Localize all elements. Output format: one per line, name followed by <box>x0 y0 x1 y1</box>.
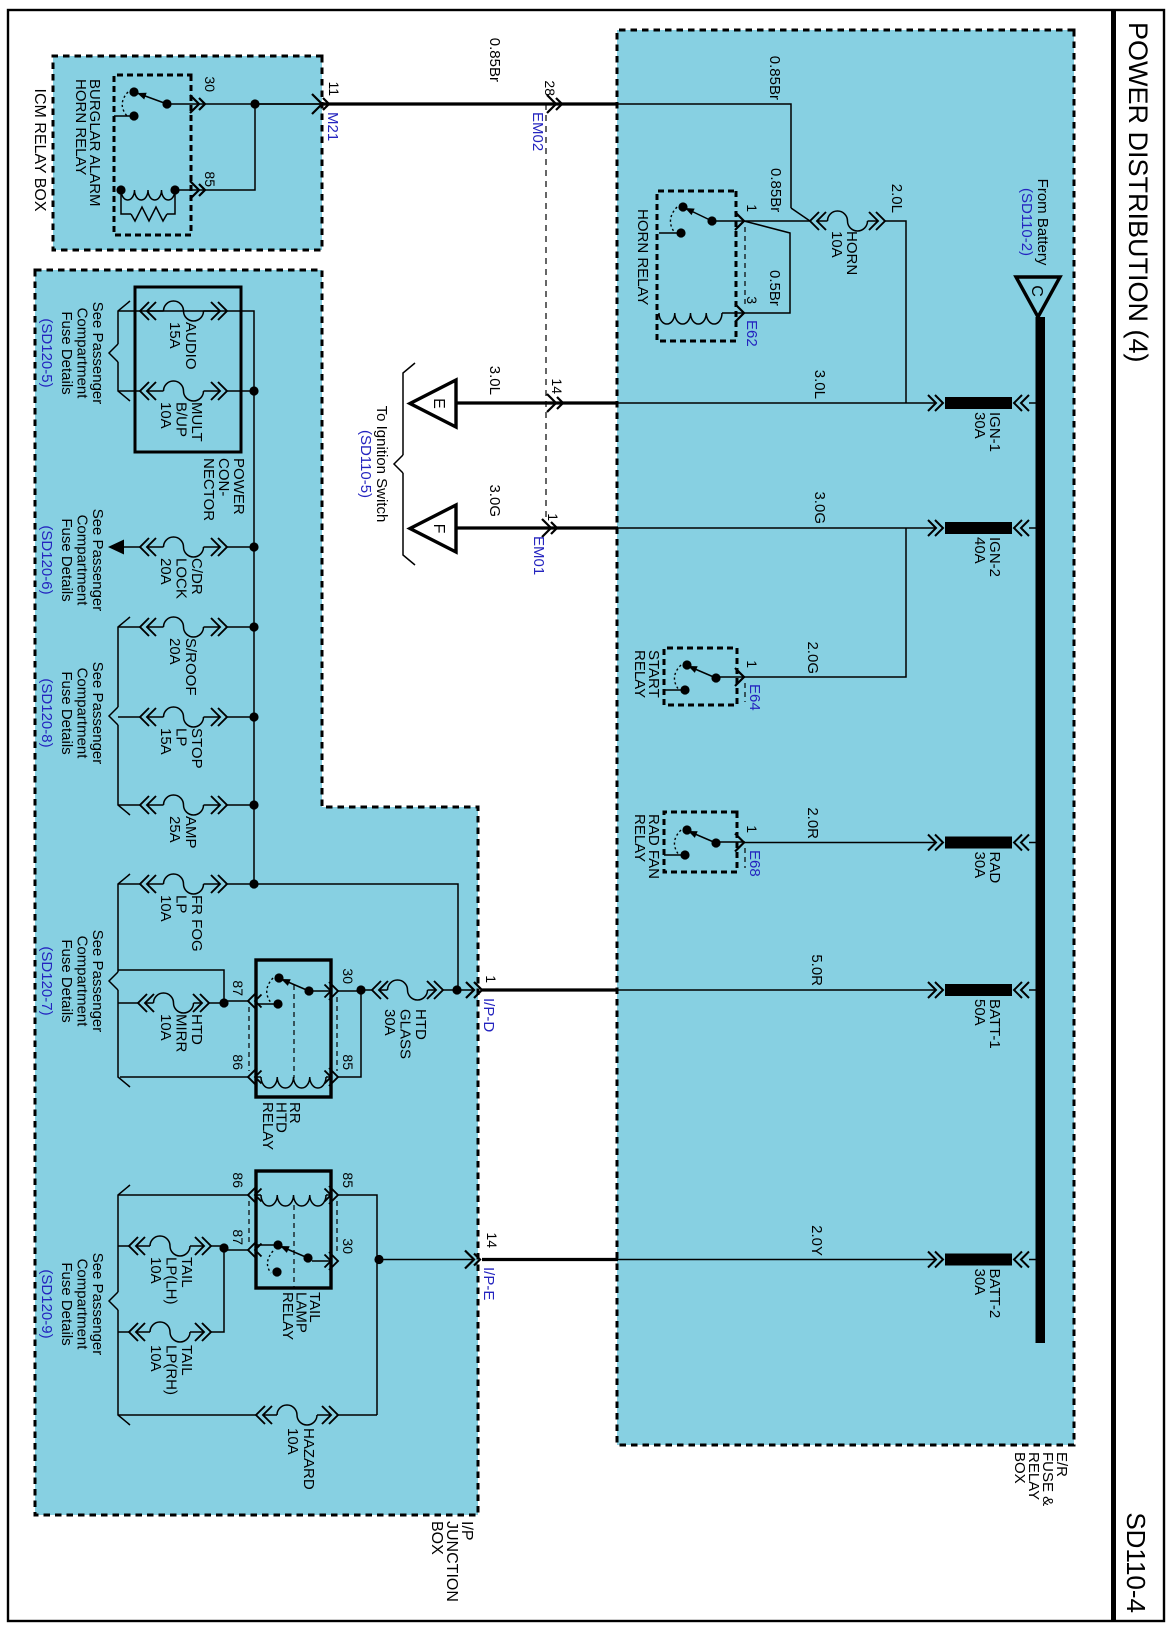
svg-text:MULT: MULT <box>188 402 205 442</box>
svg-text:AUDIO: AUDIO <box>182 322 199 370</box>
svg-text:HORN RELAY: HORN RELAY <box>72 79 89 175</box>
svg-text:10A: 10A <box>828 231 845 258</box>
svg-text:(SD120-5): (SD120-5) <box>38 318 55 387</box>
START RELAY box <box>664 648 737 705</box>
rad fan relay connector E68 pin 1 <box>735 834 744 852</box>
tail lamp relay pin links dashed <box>248 1201 250 1244</box>
svg-text:85: 85 <box>202 171 218 187</box>
svg-text:20A: 20A <box>157 558 174 585</box>
junction STOP fuse node <box>249 712 258 721</box>
wire pin 85 to hazard/batt2 node <box>338 1195 377 1415</box>
svg-text:BOX: BOX <box>1011 1452 1028 1484</box>
svg-text:30A: 30A <box>971 852 988 879</box>
wire burglar relay pins to M21 <box>199 103 251 105</box>
svg-text:3.0L: 3.0L <box>811 370 828 399</box>
svg-text:HORN RELAY: HORN RELAY <box>634 209 651 305</box>
svg-text:E64: E64 <box>746 684 763 711</box>
svg-text:30: 30 <box>340 968 356 984</box>
junction tail lamp feed node <box>374 1255 383 1264</box>
svg-text:30: 30 <box>202 76 218 92</box>
svg-text:EM02: EM02 <box>529 112 546 151</box>
svg-text:50A: 50A <box>971 999 988 1026</box>
svg-text:2.0G: 2.0G <box>804 641 821 674</box>
BURGLAR ALARM HORN RELAY box <box>114 75 191 235</box>
svg-text:Fuse Details: Fuse Details <box>58 311 75 394</box>
TAIL LAMP RELAY box <box>256 1171 331 1288</box>
wire horn relay pin 1 to horn fuse <box>744 220 810 222</box>
junction tail fuse node <box>219 1243 228 1252</box>
svg-text:HTD: HTD <box>188 1014 205 1045</box>
svg-text:30A: 30A <box>971 1269 988 1296</box>
start relay connector E64 pin 1 <box>735 668 744 686</box>
svg-text:E: E <box>430 398 447 409</box>
svg-text:(SD120-8): (SD120-8) <box>38 678 55 747</box>
tail lamp relay coil <box>326 1194 331 1196</box>
wire 0.5Br loop pin1 to pin3 <box>744 221 790 313</box>
wire 0.85Br from EM02 up into E/R box to horn node <box>255 104 791 208</box>
svg-text:15A: 15A <box>157 728 174 755</box>
svg-text:LOCK: LOCK <box>173 558 190 599</box>
connector I/P-E pin 14 <box>465 1251 474 1269</box>
battery bus bar <box>1036 317 1046 1343</box>
svg-text:10A: 10A <box>157 402 174 429</box>
svg-text:3.0L: 3.0L <box>486 366 503 395</box>
svg-text:Fuse Details: Fuse Details <box>58 671 75 754</box>
svg-text:0.85Br: 0.85Br <box>766 56 783 100</box>
svg-text:From Battery: From Battery <box>1034 179 1051 266</box>
svg-text:86: 86 <box>230 1172 246 1188</box>
svg-text:See Passenger: See Passenger <box>89 509 106 612</box>
svg-text:87: 87 <box>230 980 246 996</box>
svg-text:RELAY: RELAY <box>259 1102 276 1150</box>
svg-text:1: 1 <box>744 825 760 833</box>
horn relay switch contacts <box>716 220 744 222</box>
fuse HTD GLASS 30A <box>443 989 457 991</box>
svg-text:86: 86 <box>230 1054 246 1070</box>
junction FR FOG fuse node <box>249 879 258 888</box>
svg-text:GLASS: GLASS <box>397 1009 414 1059</box>
svg-text:To Ignition Switch: To Ignition Switch <box>373 406 390 523</box>
svg-text:0.5Br: 0.5Br <box>766 270 783 306</box>
burglar relay resistor <box>167 190 175 214</box>
svg-text:STOP: STOP <box>188 728 205 769</box>
svg-text:M21: M21 <box>324 112 341 141</box>
svg-text:11: 11 <box>326 81 342 96</box>
wire to tail rh fuse <box>211 1248 224 1332</box>
svg-text:40A: 40A <box>971 537 988 564</box>
tail lamp relay switch contacts <box>312 1260 331 1262</box>
svg-text:28: 28 <box>542 80 558 96</box>
svg-text:1: 1 <box>744 204 760 212</box>
svg-text:(SD110-5): (SD110-5) <box>357 430 374 498</box>
svg-text:14: 14 <box>549 378 565 394</box>
horn relay connector E62 pin 3 <box>735 304 744 322</box>
fuse HORN 10A <box>876 212 885 230</box>
svg-text:1: 1 <box>545 513 561 521</box>
RR HTD relay pin links dashed <box>248 1007 250 1071</box>
burglar relay pin 30 <box>190 95 199 113</box>
burglar relay pin 85 <box>190 181 199 199</box>
fuse MULT B/UP 10A <box>227 390 254 392</box>
svg-text:14: 14 <box>484 1232 500 1248</box>
wire pin87 feed upper branch <box>118 970 224 1003</box>
wire 2.0L from horn fuse to IGN-1 wire <box>885 221 906 403</box>
RR HTD relay pin 87 <box>248 992 257 1010</box>
svg-text:F: F <box>430 524 447 534</box>
svg-text:Fuse Details: Fuse Details <box>58 518 75 601</box>
svg-text:3.0G: 3.0G <box>486 484 503 517</box>
E/R FUSE &amp; RELAY BOX enclosure <box>617 30 1074 1445</box>
wire 3.0L from IGN-1 link to connector E <box>618 402 926 404</box>
svg-text:S/ROOF: S/ROOF <box>182 638 199 696</box>
fuse FR FOG LP 10A <box>227 883 254 885</box>
connector M21 pin 11 <box>312 94 322 114</box>
I/P JUNCTION BOX enclosure <box>35 270 478 1515</box>
svg-text:E68: E68 <box>746 850 763 877</box>
svg-text:TAIL: TAIL <box>178 1257 195 1288</box>
svg-text:See Passenger: See Passenger <box>89 302 106 405</box>
svg-text:NECTOR: NECTOR <box>200 458 217 521</box>
RAD FAN RELAY box <box>664 812 737 872</box>
svg-text:MIRR: MIRR <box>173 1014 190 1052</box>
wire pin85 to node <box>338 991 361 1077</box>
junction C/DR fuse node <box>249 542 258 551</box>
junction S/ROOF fuse node <box>249 622 258 631</box>
group brace sroof/stop/amp to fuse details note <box>118 617 130 707</box>
svg-text:LP: LP <box>173 728 190 746</box>
fuse HTD MIRR 10A <box>118 1002 138 1004</box>
group brace audio/mult to fuse details note <box>118 310 140 312</box>
svg-text:B/UP: B/UP <box>173 402 190 437</box>
svg-text:87: 87 <box>230 1229 246 1245</box>
svg-text:Compartment: Compartment <box>74 308 91 400</box>
svg-text:TAIL: TAIL <box>178 1345 195 1376</box>
svg-text:I/P-E: I/P-E <box>480 1267 497 1300</box>
fusible link BATT-1 50A <box>926 982 1036 1049</box>
svg-text:RELAY: RELAY <box>631 650 648 698</box>
svg-text:1: 1 <box>744 660 760 668</box>
wire 5.0R from BATT-1 link to connector I/P-D <box>618 989 926 991</box>
svg-text:See Passenger: See Passenger <box>89 1253 106 1356</box>
svg-text:30A: 30A <box>971 412 988 439</box>
svg-text:(SD120-6): (SD120-6) <box>38 525 55 594</box>
RR HTD relay switch contacts <box>313 990 331 992</box>
wire pin 87 to tail fuses junction <box>224 1249 248 1251</box>
svg-text:C/DR: C/DR <box>188 558 205 595</box>
RAD FAN RELAY switch contacts <box>720 841 745 843</box>
svg-text:RELAY: RELAY <box>631 814 648 862</box>
svg-text:LP(LH): LP(LH) <box>163 1257 180 1305</box>
HORN RELAY box <box>657 191 736 341</box>
svg-text:3.0G: 3.0G <box>811 491 828 524</box>
fuse C/DR LOCK 20A <box>227 546 254 548</box>
svg-text:Compartment: Compartment <box>74 515 91 607</box>
junction AMP fuse node <box>249 800 258 809</box>
wire diagonal to horn fuse node <box>791 208 810 221</box>
fuse TAIL LP(LH) 10A <box>211 1245 224 1247</box>
fusible link IGN-2 40A <box>926 520 1036 577</box>
svg-text:Compartment: Compartment <box>74 1259 91 1351</box>
tail lamp relay mechanical link dashed <box>293 1205 295 1288</box>
burglar relay coil <box>175 189 199 191</box>
wire RR HTD relay pin 86 to brace <box>120 1076 248 1078</box>
svg-text:POWER DISTRIBUTION (4): POWER DISTRIBUTION (4) <box>1123 22 1153 363</box>
svg-text:10A: 10A <box>284 1428 301 1455</box>
svg-text:C: C <box>1028 285 1045 297</box>
wire to RR HTD relay pin 87 <box>223 1001 225 1003</box>
svg-text:BOX: BOX <box>428 1521 445 1555</box>
connector E triangle to ignition switch <box>410 380 456 427</box>
connector F triangle to ignition switch <box>410 505 456 552</box>
fuse AMP 25A <box>227 804 254 806</box>
POWER CONNECTOR box <box>135 287 241 452</box>
svg-text:LP: LP <box>173 895 190 913</box>
connector EM02 pin 28 <box>547 95 556 113</box>
svg-text:ICM RELAY BOX: ICM RELAY BOX <box>31 89 48 212</box>
junction htd glass to pin30/85 node <box>356 985 365 994</box>
horn relay pin 1 to pin 3 dashed link <box>744 227 746 304</box>
title band separator line <box>1111 10 1116 1622</box>
svg-text:See Passenger: See Passenger <box>89 930 106 1033</box>
fusible link RAD 30A <box>926 835 1036 884</box>
fusible link IGN-1 30A <box>926 395 1036 452</box>
svg-text:85: 85 <box>340 1172 356 1188</box>
svg-text:Fuse Details: Fuse Details <box>58 939 75 1022</box>
fuse S/ROOF 20A <box>227 626 254 628</box>
svg-text:(SD110-2): (SD110-2) <box>1018 188 1035 256</box>
RR HTD relay mechanical link dashed <box>293 985 295 1078</box>
svg-text:85: 85 <box>340 1054 356 1070</box>
svg-text:HTD: HTD <box>412 1009 429 1040</box>
RR HTD relay coil <box>326 1076 331 1078</box>
svg-text:5.0R: 5.0R <box>808 954 825 986</box>
svg-text:10A: 10A <box>147 1257 164 1284</box>
svg-text:Compartment: Compartment <box>74 668 91 760</box>
junction I/P-D node <box>452 985 461 994</box>
power feed bus inside I/P junction box <box>140 311 458 986</box>
RR HTD relay pin 86 <box>248 1068 257 1086</box>
svg-text:30A: 30A <box>381 1009 398 1036</box>
brace to ignition switch note <box>403 363 415 455</box>
svg-text:I/P-D: I/P-D <box>480 998 497 1032</box>
horn relay coil <box>722 312 744 314</box>
group brace frfog/htdmirr/rrhtd to fuse details note <box>118 874 130 972</box>
tail lamp relay pin 87 <box>248 1241 257 1259</box>
arrow to door lock circuit <box>124 546 140 548</box>
tail lamp relay pin 86 <box>248 1186 257 1204</box>
wire 2.0R from RAD link to rad fan relay pin 1 <box>744 842 926 844</box>
svg-text:10A: 10A <box>157 895 174 922</box>
svg-text:1: 1 <box>483 975 499 983</box>
wire pin 86 to brace <box>118 1194 248 1196</box>
svg-text:EM01: EM01 <box>530 536 547 575</box>
burglar relay coil junction dots <box>170 185 179 194</box>
fuse AUDIO 15A <box>218 302 227 320</box>
svg-text:SD110-4: SD110-4 <box>1121 1512 1151 1613</box>
RR HTD RELAY box <box>256 960 331 1097</box>
RR HTD relay pin 30 <box>329 982 338 1000</box>
svg-text:AMP: AMP <box>182 816 199 849</box>
svg-text:2.0Y: 2.0Y <box>808 1225 825 1256</box>
svg-text:25A: 25A <box>166 816 183 843</box>
wire 3.0G from IGN-2 link to connector F <box>618 527 926 529</box>
svg-text:3: 3 <box>744 296 760 304</box>
wire 2.0G from IGN-2 wire to start relay pin 1 <box>744 528 906 677</box>
svg-text:10A: 10A <box>157 1014 174 1041</box>
junction burglar relay output node <box>250 99 259 108</box>
svg-text:30: 30 <box>340 1238 356 1254</box>
fuse HAZARD 10A <box>338 1414 377 1416</box>
svg-text:HAZARD: HAZARD <box>300 1428 317 1490</box>
harness boundary dashed line EM02-EM01 <box>545 104 547 519</box>
connector C triangle from battery <box>1016 277 1060 317</box>
svg-text:0.85Br: 0.85Br <box>486 38 503 82</box>
ICM RELAY BOX enclosure <box>53 56 322 250</box>
wire 2.0Y from BATT-2 link to connector I/P-E <box>618 1259 926 1261</box>
fuse TAIL LP(RH) 10A <box>202 1323 211 1341</box>
svg-text:Compartment: Compartment <box>74 936 91 1028</box>
connector EM01 pin 1 <box>542 519 551 537</box>
START RELAY switch contacts <box>720 676 745 678</box>
svg-text:(SD120-9): (SD120-9) <box>38 1269 55 1338</box>
svg-text:FR FOG: FR FOG <box>188 895 205 952</box>
tail lamp relay pin 30 <box>329 1252 338 1270</box>
svg-text:(SD120-7): (SD120-7) <box>38 946 55 1015</box>
svg-text:See Passenger: See Passenger <box>89 662 106 765</box>
svg-text:2.0R: 2.0R <box>804 807 821 839</box>
junction htd mirr node <box>219 998 228 1007</box>
RR HTD relay pin 85 <box>329 1068 338 1086</box>
junction MULT fuse node <box>249 386 258 395</box>
tail lamp relay pin 85 <box>329 1186 338 1204</box>
svg-text:RELAY: RELAY <box>279 1292 296 1340</box>
svg-text:20A: 20A <box>166 638 183 665</box>
svg-text:E62: E62 <box>743 320 760 347</box>
svg-text:2.0L: 2.0L <box>888 184 905 213</box>
group brace tail/hazard to fuse details note <box>118 1185 130 1292</box>
burglar relay switch contacts <box>171 103 199 105</box>
connector pin 14 on 3.0L wire <box>547 394 556 412</box>
fuse STOP LP 15A <box>227 716 254 718</box>
horn relay connector E62 pin 1 <box>735 212 744 230</box>
wire pin30 node <box>360 990 362 991</box>
svg-text:15A: 15A <box>166 322 183 349</box>
fusible link BATT-2 30A <box>926 1252 1036 1319</box>
svg-text:10A: 10A <box>147 1345 164 1372</box>
svg-text:0.85Br: 0.85Br <box>767 168 784 212</box>
connector I/P-D pin 1 <box>466 982 474 998</box>
svg-text:Fuse Details: Fuse Details <box>58 1262 75 1345</box>
svg-text:LP(RH): LP(RH) <box>163 1345 180 1395</box>
